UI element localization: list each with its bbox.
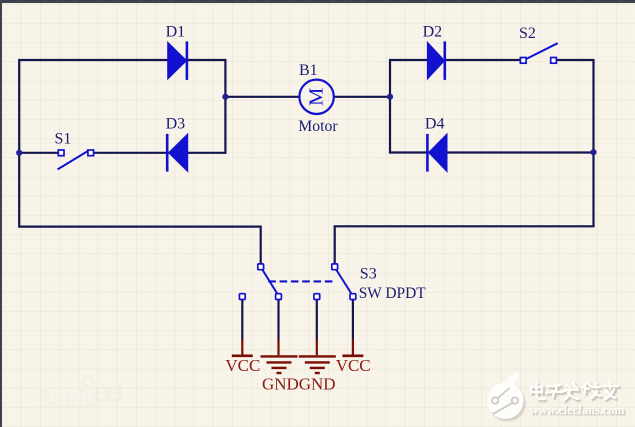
watermark elecfans url text [531, 404, 626, 418]
switch S3 throw 2b terminal [350, 294, 356, 300]
wire S3 throw2b to VCC [352, 300, 354, 340]
svg-text:VCC: VCC [336, 356, 371, 375]
switch S3 pole 2 common terminal [332, 264, 338, 270]
wire S1/D3 row right segment [94, 152, 227, 154]
svg-text:S3: S3 [360, 266, 377, 283]
svg-text:SW DPDT: SW DPDT [359, 285, 426, 302]
VCC stem left [241, 339, 243, 355]
watermark elecfans logo [487, 372, 525, 421]
wire S3 throw2a to GND [316, 300, 318, 340]
GND symbol left bars [261, 356, 298, 373]
switch S3 pole 2 arm [336, 269, 353, 295]
junction dot D1/D3 node to motor [222, 94, 228, 100]
VCC stem right [352, 339, 354, 355]
motor B1 [299, 80, 333, 114]
window left edge [0, 0, 2, 427]
VCC bar right [342, 354, 363, 357]
wire right loop: left vertical and D2 row left segment [390, 60, 521, 154]
svg-text:M: M [306, 88, 328, 106]
switch S3 pole 1 common terminal [258, 264, 264, 270]
switch S3 throw 2a terminal [314, 294, 320, 300]
junction dot D4 row right [590, 149, 596, 155]
diode D1 [168, 41, 187, 80]
diode D4 [427, 134, 447, 172]
diode D2 [427, 41, 444, 80]
switch S3 linkage dashed [268, 280, 333, 282]
diode D3 [167, 134, 188, 172]
svg-text:D3: D3 [166, 116, 186, 133]
GND symbol right bars [299, 356, 336, 373]
switch S3 throw 1a terminal [239, 294, 245, 300]
junction dot left (S1 row) [16, 150, 22, 156]
junction dot motor right node [387, 94, 393, 100]
wire motor right segment [334, 96, 391, 98]
window top edge [0, 0, 635, 3]
svg-text:GND: GND [299, 374, 336, 393]
GND stem left [277, 339, 279, 355]
wire D4 row [389, 151, 595, 153]
svg-text:B1: B1 [299, 62, 318, 79]
wire right loop: S2 to right vertical, bottom rail, drop to S3 pole 2 [335, 60, 594, 265]
wire S3 throw1a to VCC [241, 300, 243, 340]
watermark baidu baike [35, 376, 120, 412]
svg-text:Motor: Motor [298, 118, 338, 135]
wire S1/D3 row left segment [18, 152, 58, 154]
wire left loop: mid vertical, top rail, left vertical, bottom rail, drop to S3 pole 1 [19, 60, 261, 265]
VCC bar left [232, 354, 253, 357]
svg-text:S2: S2 [519, 25, 536, 42]
svg-text:D2: D2 [423, 23, 443, 40]
switch S1 [58, 150, 94, 169]
GND stem right [316, 339, 318, 355]
wire motor left segment [224, 96, 299, 98]
svg-text:D4: D4 [425, 115, 445, 132]
watermark elecfans chinese text [533, 384, 620, 402]
switch S3 pole 1 arm [262, 269, 278, 295]
svg-text:GND: GND [262, 374, 299, 393]
svg-text:VCC: VCC [225, 356, 260, 375]
switch S3 throw 1b terminal [276, 294, 282, 300]
svg-text:D1: D1 [166, 23, 186, 40]
wire S3 throw1b to GND [277, 300, 279, 340]
switch S2 [520, 43, 557, 63]
svg-text:Baidu: Baidu [35, 384, 95, 411]
svg-text:S1: S1 [55, 130, 72, 147]
